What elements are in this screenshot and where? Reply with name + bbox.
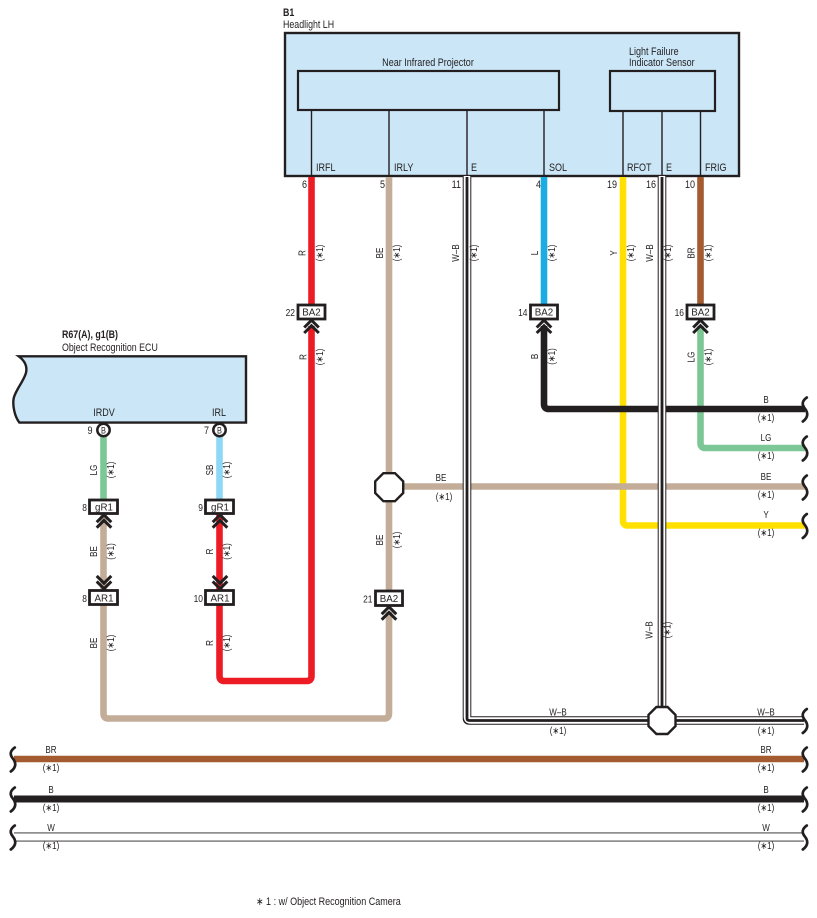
svg-text:14: 14 [518, 306, 527, 318]
svg-text:B: B [529, 354, 540, 359]
svg-text:W–B: W–B [644, 621, 655, 638]
svg-text:E: E [666, 162, 672, 174]
svg-text:W–B: W–B [644, 244, 655, 261]
svg-text:(∗1): (∗1) [758, 412, 775, 423]
svg-text:B: B [48, 784, 53, 795]
svg-text:RFOT: RFOT [627, 162, 652, 174]
svg-text:(∗1): (∗1) [758, 450, 775, 461]
svg-text:(∗1): (∗1) [550, 725, 567, 736]
svg-text:B: B [101, 426, 106, 436]
svg-text:LG: LG [686, 352, 697, 363]
svg-text:(∗1): (∗1) [105, 635, 116, 652]
svg-text:IRL: IRL [212, 407, 226, 419]
svg-text:11: 11 [452, 179, 462, 191]
svg-text:Y: Y [608, 250, 619, 255]
svg-text:AR1: AR1 [210, 593, 229, 604]
svg-text:R: R [298, 354, 309, 360]
svg-text:6: 6 [302, 179, 307, 191]
svg-text:BE: BE [88, 546, 99, 557]
svg-text:(∗1): (∗1) [703, 245, 714, 262]
svg-text:(∗1): (∗1) [758, 489, 775, 500]
svg-text:(∗1): (∗1) [546, 348, 557, 365]
svg-text:FRIG: FRIG [705, 162, 727, 174]
svg-text:AR1: AR1 [94, 593, 113, 604]
svg-text:R67(A), g1(B): R67(A), g1(B) [62, 329, 118, 341]
svg-text:21: 21 [363, 593, 372, 605]
svg-text:BA2: BA2 [535, 307, 554, 318]
svg-text:(∗1): (∗1) [105, 543, 116, 560]
svg-text:(∗1): (∗1) [758, 762, 775, 773]
svg-text:Headlight LH: Headlight LH [283, 19, 334, 31]
svg-text:BA2: BA2 [302, 307, 321, 318]
svg-text:BE: BE [374, 535, 385, 546]
svg-text:(∗1): (∗1) [221, 462, 232, 479]
svg-text:BR: BR [760, 744, 772, 755]
svg-text:SB: SB [204, 465, 215, 476]
svg-text:B: B [763, 394, 768, 405]
svg-text:10: 10 [194, 592, 203, 604]
svg-text:R: R [204, 548, 215, 554]
svg-text:LG: LG [761, 432, 772, 443]
svg-text:SOL: SOL [549, 162, 567, 174]
svg-text:Near Infrared Projector: Near Infrared Projector [382, 57, 474, 69]
svg-text:(∗1): (∗1) [221, 635, 232, 652]
svg-text:(∗1): (∗1) [314, 349, 325, 366]
svg-text:Indicator Sensor: Indicator Sensor [629, 57, 695, 69]
svg-text:(∗1): (∗1) [468, 245, 479, 262]
svg-text:(∗1): (∗1) [436, 491, 453, 502]
svg-text:IRDV: IRDV [93, 407, 115, 419]
svg-text:16: 16 [646, 179, 656, 191]
svg-text:(∗1): (∗1) [391, 532, 402, 549]
svg-text:8: 8 [82, 592, 87, 604]
svg-text:5: 5 [380, 179, 385, 191]
svg-text:gR1: gR1 [211, 502, 229, 513]
svg-text:(∗1): (∗1) [391, 245, 402, 262]
svg-text:(∗1): (∗1) [546, 245, 557, 262]
svg-text:LG: LG [88, 465, 99, 476]
svg-text:gR1: gR1 [95, 502, 113, 513]
svg-text:W: W [762, 822, 770, 833]
svg-text:W–B: W–B [549, 707, 566, 718]
svg-text:(∗1): (∗1) [758, 725, 775, 736]
svg-text:Y: Y [763, 509, 768, 520]
svg-text:BE: BE [761, 471, 772, 482]
svg-text:R: R [204, 640, 215, 646]
svg-text:(∗1): (∗1) [221, 543, 232, 560]
svg-text:22: 22 [286, 306, 295, 318]
svg-text:BA2: BA2 [380, 594, 399, 605]
svg-text:R: R [297, 250, 308, 256]
svg-text:W: W [47, 822, 55, 833]
svg-text:BE: BE [374, 248, 385, 259]
svg-text:B1: B1 [283, 7, 295, 19]
svg-text:W–B: W–B [757, 707, 774, 718]
svg-text:BR: BR [686, 247, 697, 259]
svg-text:W–B: W–B [450, 244, 461, 261]
svg-text:(∗1): (∗1) [625, 245, 636, 262]
svg-text:(∗1): (∗1) [758, 840, 775, 851]
svg-text:(∗1): (∗1) [314, 245, 325, 262]
svg-text:B: B [763, 784, 768, 795]
svg-text:B: B [217, 426, 222, 436]
svg-text:7: 7 [204, 425, 209, 437]
svg-text:BE: BE [436, 472, 447, 483]
svg-text:∗ 1 : w/ Object Recognition Ca: ∗ 1 : w/ Object Recognition Camera [256, 896, 401, 908]
svg-text:BE: BE [88, 638, 99, 649]
svg-text:16: 16 [675, 306, 684, 318]
svg-text:(∗1): (∗1) [43, 840, 60, 851]
svg-text:8: 8 [82, 501, 87, 513]
svg-text:(∗1): (∗1) [758, 802, 775, 813]
svg-text:(∗1): (∗1) [703, 349, 714, 366]
svg-text:(∗1): (∗1) [758, 527, 775, 538]
svg-text:9: 9 [87, 425, 92, 437]
svg-text:(∗1): (∗1) [43, 802, 60, 813]
svg-text:(∗1): (∗1) [662, 622, 673, 639]
svg-text:IRFL: IRFL [316, 162, 336, 174]
svg-text:BR: BR [45, 744, 57, 755]
svg-text:10: 10 [685, 179, 695, 191]
svg-text:(∗1): (∗1) [43, 762, 60, 773]
svg-text:19: 19 [607, 179, 617, 191]
svg-text:4: 4 [536, 179, 541, 191]
svg-text:E: E [471, 162, 477, 174]
svg-text:Object Recognition ECU: Object Recognition ECU [62, 342, 158, 354]
svg-text:L: L [529, 251, 540, 255]
svg-text:(∗1): (∗1) [662, 245, 673, 262]
svg-text:BA2: BA2 [691, 307, 710, 318]
svg-text:9: 9 [198, 501, 203, 513]
svg-text:(∗1): (∗1) [105, 462, 116, 479]
svg-text:IRLY: IRLY [394, 162, 414, 174]
